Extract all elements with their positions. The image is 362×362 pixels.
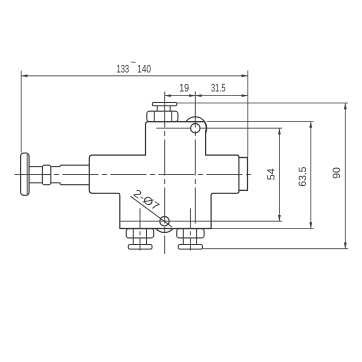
arrows 133~140 xyxy=(21,74,27,77)
top bonnet bolt: cap xyxy=(152,103,176,106)
centerline vertical through bolt and bottom hole xyxy=(164,92,166,255)
svg-text:140: 140 xyxy=(137,63,151,75)
valve body outline xyxy=(89,122,247,229)
bottom-right fitting: hex nut xyxy=(177,229,204,238)
stem hex nut xyxy=(42,165,50,185)
centerline bottom-right fitting xyxy=(189,208,191,250)
handwheel knob xyxy=(21,153,30,195)
svg-text:133: 133 xyxy=(117,63,130,75)
boss circle bottom (around lower Ø7 hole) xyxy=(153,210,176,233)
bottom-left fitting: shank xyxy=(132,238,134,245)
arrows 90 xyxy=(344,103,347,109)
svg-text:~: ~ xyxy=(130,57,136,68)
dimension line 90 xyxy=(344,103,346,249)
bottom Ø7 hole xyxy=(160,217,169,226)
dimension line 31.5 xyxy=(195,95,248,97)
extension line 90 top (from bolt cap) xyxy=(177,102,348,104)
port face line (right outlet) xyxy=(238,158,240,191)
bottom-left fitting: flange foot xyxy=(128,245,152,250)
dimension text 133~140 xyxy=(117,57,344,186)
bottom-right fitting: flange foot xyxy=(178,245,202,250)
centerline horizontal (valve axis) xyxy=(15,173,254,175)
extension line right (overall length, at port) xyxy=(247,71,249,158)
arrows 63.5 xyxy=(309,122,312,128)
top Ø7 hole xyxy=(191,124,200,133)
arrows 54 xyxy=(278,128,281,134)
top edge line through boss xyxy=(186,121,204,123)
top hex nut xyxy=(147,111,178,121)
svg-text:54: 54 xyxy=(266,168,278,180)
dimension line 54 xyxy=(278,128,280,221)
extension line 54 bottom / bottom hole centerline xyxy=(121,220,282,222)
dimension line 19 xyxy=(165,95,196,97)
bottom-left fitting: hex nut xyxy=(126,229,154,238)
centerline vertical through top hole xyxy=(194,92,196,225)
extension line 63.5 top (from body top edge) xyxy=(207,121,314,123)
extension line 63.5 bottom (from body bottom edge) xyxy=(211,228,313,230)
arrows 19 xyxy=(165,94,171,97)
extension line 54 top / top hole centerline xyxy=(156,127,190,129)
top bolt shank xyxy=(156,106,158,112)
boss circle top (around upper Ø7 hole) xyxy=(184,117,207,140)
svg-text:31.5: 31.5 xyxy=(211,83,226,95)
arrows 31.5 xyxy=(195,94,201,97)
extension line left (overall length, at knob) xyxy=(20,71,22,153)
extension line 90 bottom (from flange foot bottom) xyxy=(203,248,348,250)
dimension arrowheads xyxy=(21,74,347,248)
svg-text:63.5: 63.5 xyxy=(297,166,309,186)
dimension line 133~140 xyxy=(21,75,248,77)
svg-text:90: 90 xyxy=(331,167,343,179)
dimension line 63.5 xyxy=(310,122,312,229)
valve stem xyxy=(29,165,89,185)
bottom-right fitting: shank xyxy=(182,238,184,245)
leader line for 2-Ø7 xyxy=(131,196,173,227)
centerline bottom-left fitting xyxy=(139,208,141,250)
svg-text:19: 19 xyxy=(179,83,189,95)
